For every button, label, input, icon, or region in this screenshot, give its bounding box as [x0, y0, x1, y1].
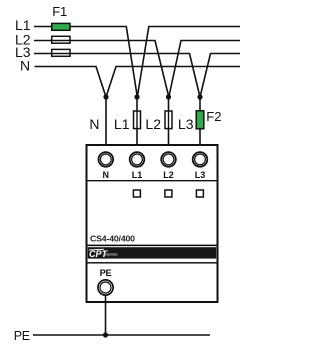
svg-text:PE: PE [100, 268, 112, 278]
fuse on L3 [52, 49, 70, 56]
CPT logo bar (black) [88, 247, 216, 259]
device divider above logo bar [88, 244, 217, 246]
indicator window L2 [165, 190, 172, 197]
fuse on L2 drop [165, 111, 172, 129]
wire L2 bus [34, 41, 240, 98]
wire N drop to device [105, 97, 107, 145]
device divider below logo bar [88, 262, 217, 264]
node L2 junction dot [166, 94, 171, 99]
node L1 junction dot [134, 94, 139, 99]
svg-text:PE: PE [14, 329, 30, 343]
terminal PE circle [98, 280, 113, 295]
svg-text:L2: L2 [163, 170, 174, 180]
svg-text:cirprotec: cirprotec [105, 253, 118, 257]
wire through L1 drop fuse [136, 110, 138, 129]
fuse on L1 drop [134, 111, 141, 129]
fuse F2 (green, on L3 drop) [196, 111, 204, 129]
svg-text:N: N [89, 116, 99, 132]
terminal L2 circle [161, 152, 176, 167]
svg-text:L3: L3 [195, 170, 206, 180]
svg-text:F2: F2 [206, 109, 221, 124]
wire through L2 fuse [51, 40, 71, 42]
wire L3 bus [34, 54, 240, 98]
wire N bus [35, 67, 241, 98]
node N junction dot [103, 94, 108, 99]
device divider under terminal labels [88, 180, 217, 182]
svg-text:L1: L1 [114, 116, 130, 132]
fuse F1 (green, on L1) [52, 23, 70, 30]
node L3 junction dot [197, 94, 202, 99]
svg-text:CS4-40/400: CS4-40/400 [90, 233, 135, 243]
terminal N circle [99, 152, 114, 167]
svg-text:N: N [103, 170, 110, 180]
svg-text:L1: L1 [132, 170, 143, 180]
wire through L3 fuse [51, 53, 71, 55]
svg-text:L2: L2 [145, 116, 161, 132]
terminal L1 circle [130, 152, 145, 167]
fuse on L2 [52, 36, 70, 43]
wire through L2 drop fuse [168, 110, 170, 129]
device CS4-40/400 outline [87, 145, 218, 302]
node PE junction dot [103, 332, 108, 337]
terminal L3 circle [193, 152, 208, 167]
wire L1 drop to device [136, 97, 138, 145]
wire L2 drop to device [168, 97, 170, 145]
svg-text:L3: L3 [178, 116, 194, 132]
svg-text:N: N [20, 58, 30, 74]
wire L1 bus [34, 27, 240, 98]
wire L3 drop to device [199, 97, 201, 145]
indicator window L1 [133, 190, 140, 197]
svg-text:F1: F1 [52, 4, 67, 19]
wire PE bus [33, 334, 210, 336]
wire PE drop from device [105, 295, 107, 335]
indicator window L3 [196, 190, 203, 197]
